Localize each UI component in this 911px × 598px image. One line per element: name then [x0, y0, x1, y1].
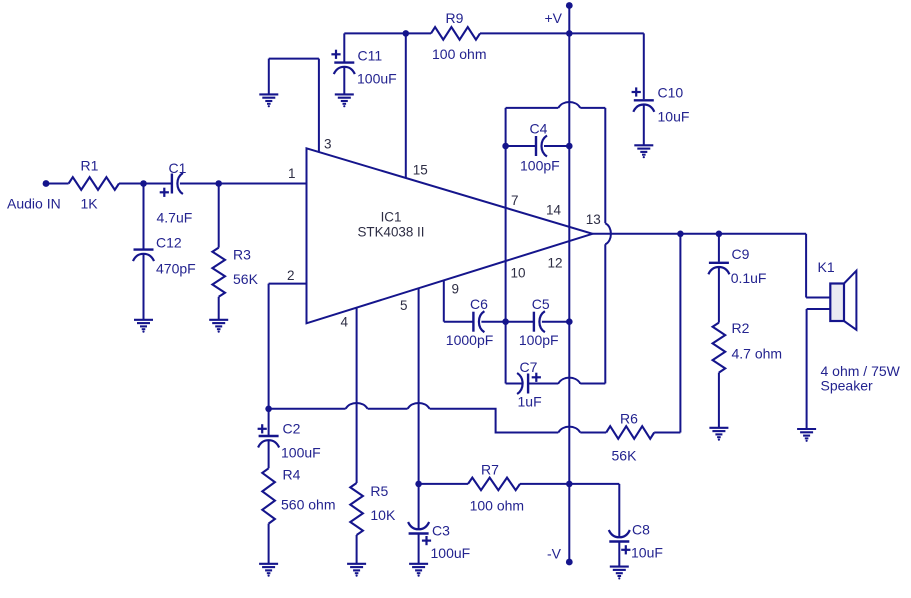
- capacitor C4: [520, 121, 560, 174]
- svg-text:K1: K1: [818, 259, 835, 275]
- svg-text:1000pF: 1000pF: [446, 332, 493, 348]
- pin 10 label: [511, 266, 526, 281]
- node junction C4 left: [502, 143, 509, 150]
- svg-text:56K: 56K: [233, 271, 259, 287]
- svg-text:100uF: 100uF: [281, 445, 321, 461]
- svg-text:IC1: IC1: [381, 210, 402, 225]
- svg-text:C1: C1: [169, 160, 187, 176]
- pin 13 label: [586, 212, 601, 227]
- svg-text:Speaker: Speaker: [821, 378, 873, 394]
- wire bus with hops: [269, 403, 607, 433]
- resistor R9: [431, 10, 486, 62]
- wire R2 to ground: [718, 373, 720, 427]
- op-amp IC1 STK4038 II: [307, 148, 593, 323]
- svg-text:100pF: 100pF: [519, 332, 559, 348]
- ground C8: [610, 567, 629, 580]
- svg-text:R7: R7: [481, 462, 499, 478]
- svg-text:C10: C10: [658, 85, 684, 101]
- label speaker value: [821, 363, 901, 394]
- wire R9 left lead: [406, 32, 431, 34]
- resistor R3: [212, 247, 258, 297]
- wire R7 right lead: [520, 483, 569, 485]
- wire R1 to C1: [119, 183, 172, 185]
- wire C6 right lead: [481, 321, 505, 323]
- wire input to R1: [46, 183, 69, 185]
- pin 2 label: [287, 268, 295, 283]
- resistor R6: [606, 411, 654, 464]
- svg-text:10uF: 10uF: [631, 545, 663, 561]
- pin 12 label: [548, 256, 563, 271]
- svg-text:14: 14: [546, 203, 562, 218]
- capacitor C8: [609, 522, 663, 561]
- resistor R2: [713, 320, 782, 373]
- node junction pin15/R9: [403, 30, 410, 37]
- wire C4 left lead: [506, 145, 536, 147]
- svg-text:C4: C4: [530, 121, 548, 137]
- svg-text:R4: R4: [283, 467, 301, 483]
- wire C5 right lead: [542, 321, 569, 323]
- svg-text:C11: C11: [358, 48, 383, 64]
- wire C7 right lead with hop: [528, 378, 605, 384]
- svg-text:15: 15: [413, 163, 428, 178]
- capacitor C9: [708, 246, 766, 286]
- wire R6 to output: [654, 234, 680, 433]
- wire speaker minus to ground: [807, 309, 831, 428]
- capacitor C11: [331, 48, 396, 87]
- svg-text:100 ohm: 100 ohm: [470, 498, 524, 514]
- svg-text:0.1uF: 0.1uF: [731, 270, 767, 286]
- svg-text:7: 7: [511, 193, 519, 208]
- svg-text:56K: 56K: [612, 448, 638, 464]
- svg-text:+V: +V: [544, 10, 562, 26]
- wire C8 to ground: [618, 542, 620, 566]
- wire R3 to ground: [218, 297, 220, 319]
- wire C10 to ground: [643, 105, 645, 145]
- pin 9 label: [452, 282, 460, 297]
- capacitor C5: [519, 296, 559, 348]
- pin 15 label: [413, 163, 428, 178]
- wire box top with hop: [506, 102, 606, 108]
- svg-text:10uF: 10uF: [658, 109, 690, 125]
- svg-text:5: 5: [400, 298, 408, 313]
- wire +V to C10: [569, 33, 644, 99]
- svg-text:100uF: 100uF: [431, 545, 471, 561]
- svg-text:C2: C2: [283, 421, 301, 437]
- ground pin 3: [259, 94, 278, 107]
- node Audio IN terminal: [7, 180, 61, 212]
- wire C2 top lead: [268, 409, 270, 435]
- svg-text:100pF: 100pF: [520, 158, 560, 174]
- node -V terminal: [547, 545, 573, 565]
- svg-text:4.7uF: 4.7uF: [157, 210, 193, 226]
- wire C9 branch: [718, 234, 720, 262]
- svg-text:1K: 1K: [81, 196, 99, 212]
- wire main vertical rail: [568, 6, 570, 563]
- svg-text:R1: R1: [81, 158, 99, 174]
- speaker K1: [818, 259, 857, 330]
- wire R9 to +V node: [480, 32, 569, 34]
- svg-text:Audio IN: Audio IN: [7, 196, 61, 212]
- wire box left vertical pin7/pin10: [505, 108, 507, 384]
- node +V terminal: [544, 2, 572, 26]
- svg-text:R3: R3: [233, 247, 251, 263]
- ground speaker: [797, 429, 816, 442]
- svg-text:R5: R5: [370, 483, 388, 499]
- svg-text:4: 4: [341, 315, 349, 330]
- svg-text:1uF: 1uF: [518, 394, 542, 410]
- svg-text:C8: C8: [632, 522, 650, 538]
- pin 7 label: [511, 193, 519, 208]
- pin 3 label: [324, 137, 332, 152]
- svg-text:-V: -V: [547, 545, 562, 561]
- wire C9 to R2: [718, 267, 720, 323]
- wire R4 to ground: [268, 524, 270, 563]
- capacitor C2: [258, 421, 321, 461]
- capacitor C1: [157, 160, 193, 226]
- svg-text:13: 13: [586, 212, 601, 227]
- ground R3: [209, 320, 228, 333]
- svg-text:10: 10: [511, 266, 526, 281]
- wire pin 4 to R5: [356, 308, 358, 483]
- node junction +V/R9: [566, 30, 573, 37]
- svg-text:560 ohm: 560 ohm: [281, 497, 335, 513]
- svg-text:C3: C3: [432, 523, 450, 539]
- svg-text:2: 2: [287, 268, 295, 283]
- svg-text:C7: C7: [520, 359, 538, 375]
- svg-text:STK4038 II: STK4038 II: [358, 225, 425, 240]
- wire output to speaker plus: [806, 234, 830, 298]
- wire pin 5 to C3: [418, 288, 420, 529]
- wire C12 branch: [143, 184, 145, 249]
- pin 5 label: [400, 298, 408, 313]
- wire C11 to ground: [343, 67, 345, 94]
- svg-text:100uF: 100uF: [357, 71, 397, 87]
- capacitor C10: [632, 85, 690, 125]
- wire box right vertical with hop: [605, 108, 611, 384]
- ground C11: [335, 94, 354, 107]
- node junction C4 right: [566, 143, 573, 150]
- wire C1 to pin 1: [180, 183, 307, 185]
- svg-text:12: 12: [548, 256, 563, 271]
- ground R5: [347, 564, 366, 577]
- svg-text:3: 3: [324, 137, 332, 152]
- wire R7 left lead: [419, 483, 468, 485]
- svg-text:4.7 ohm: 4.7 ohm: [732, 346, 783, 362]
- resistor R5: [350, 483, 396, 535]
- capacitor C3: [408, 522, 470, 561]
- resistor R1: [69, 158, 119, 212]
- wire pin 2: [269, 284, 307, 409]
- svg-text:100 ohm: 100 ohm: [432, 46, 486, 62]
- capacitor C7: [517, 359, 542, 410]
- pin 1 label: [288, 166, 296, 181]
- node junction C12 tap: [140, 180, 147, 187]
- ground C12: [134, 320, 153, 333]
- wire R3 branch: [218, 184, 220, 248]
- capacitor C12: [133, 235, 196, 277]
- pin 4 label: [341, 315, 349, 330]
- node junction R7/-V rail: [566, 481, 573, 488]
- capacitor C6: [446, 296, 493, 348]
- node junction bus left: [265, 406, 272, 413]
- node junction R3 tap: [215, 180, 222, 187]
- node junction R7 left: [415, 481, 422, 488]
- svg-text:R6: R6: [620, 411, 638, 427]
- wire C2 to R4: [268, 440, 270, 468]
- svg-text:1: 1: [288, 166, 296, 181]
- node junction C6/C5: [502, 318, 509, 325]
- wire C4 right lead: [544, 145, 569, 147]
- ground C3: [409, 564, 428, 577]
- ground R4: [259, 564, 278, 577]
- svg-text:9: 9: [452, 282, 460, 297]
- node junction C5 right: [566, 318, 573, 325]
- svg-text:C12: C12: [156, 235, 182, 251]
- ground C10: [634, 145, 653, 158]
- svg-text:C5: C5: [532, 296, 550, 312]
- wire C11 top: [343, 33, 345, 61]
- svg-text:10K: 10K: [370, 507, 396, 523]
- svg-text:R9: R9: [446, 10, 464, 26]
- svg-text:470pF: 470pF: [156, 261, 196, 277]
- wire C12 to ground: [143, 254, 145, 319]
- ground R2: [709, 428, 728, 441]
- wire C5 left lead: [506, 321, 534, 323]
- pin 14 label: [546, 203, 562, 218]
- resistor R7: [468, 462, 524, 514]
- svg-text:C9: C9: [732, 246, 750, 262]
- wire to C8: [569, 484, 619, 537]
- wire pin 9 stub: [444, 281, 474, 322]
- svg-text:C6: C6: [470, 296, 488, 312]
- wire output pin 13: [593, 233, 807, 235]
- resistor R4: [262, 467, 335, 524]
- wire pin 15: [405, 33, 407, 178]
- wire C3 to ground: [418, 534, 420, 564]
- wire C7 left lead: [506, 383, 524, 385]
- wire pin 3 bracket: [269, 59, 319, 152]
- node junction C9: [716, 231, 723, 238]
- wire R5 to ground: [356, 535, 358, 563]
- node junction feedback: [677, 231, 684, 238]
- wire C11 to R9 node: [344, 32, 406, 34]
- svg-text:R2: R2: [732, 320, 750, 336]
